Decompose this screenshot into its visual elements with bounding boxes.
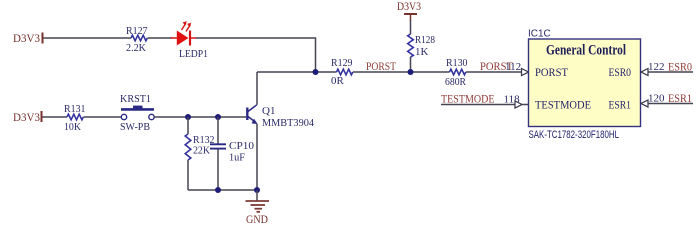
wire R127 to LED	[148, 37, 173, 39]
pin label TESTMODE	[535, 98, 591, 112]
svg-text:2.2K: 2.2K	[126, 42, 146, 54]
resistor R132	[185, 117, 214, 190]
svg-text:1uF: 1uF	[229, 152, 245, 164]
capacitor CP10	[210, 117, 254, 190]
svg-text:ESR1: ESR1	[668, 93, 692, 105]
wire LED to corner and down to node	[196, 38, 316, 70]
switch KRST1 SW-PB	[120, 93, 154, 133]
wire collector riser to R129	[257, 71, 337, 73]
node junction CP10 top	[215, 114, 221, 120]
net label PORST at pin	[480, 61, 513, 73]
svg-text:D3V3: D3V3	[13, 31, 40, 45]
pin label ESR1	[609, 98, 632, 112]
wire ESR1 stub	[648, 103, 693, 105]
wire D3V3 to R131	[43, 116, 68, 118]
resistor R129	[331, 57, 353, 87]
svg-text:R129: R129	[331, 57, 353, 69]
net label PORST	[366, 61, 396, 73]
pin number 118	[504, 94, 521, 106]
transistor Q1 MMBT3904	[247, 105, 314, 129]
svg-text:ESR1: ESR1	[609, 98, 632, 112]
svg-text:LEDP1: LEDP1	[179, 48, 208, 60]
svg-text:R130: R130	[446, 57, 468, 69]
wire TESTMODE stub	[441, 104, 515, 106]
node junction R128	[408, 69, 414, 75]
pin arrow ESR0	[641, 69, 648, 76]
pin label PORST	[535, 65, 569, 79]
net label ESR0	[668, 62, 692, 74]
svg-text:ESR0: ESR0	[609, 65, 632, 79]
resistor R130	[445, 57, 468, 88]
svg-text:D3V3: D3V3	[397, 0, 421, 13]
svg-text:1K: 1K	[415, 46, 429, 58]
wire ESR0 stub	[648, 71, 693, 73]
ground GND	[246, 190, 270, 226]
wire R129 to R130	[353, 71, 450, 73]
wire switch to Q1 base	[154, 116, 246, 118]
svg-text:Q1: Q1	[262, 105, 275, 117]
pin arrow TESTMODE	[515, 101, 529, 108]
wire collector up	[256, 72, 258, 105]
power port D3V3 top-left	[13, 31, 43, 45]
svg-text:ESR0: ESR0	[668, 62, 692, 74]
svg-text:PORST: PORST	[535, 65, 569, 79]
power port D3V3 bottom-left	[13, 110, 42, 124]
wire D3V3 to R127	[44, 37, 132, 39]
svg-text:General Control: General Control	[546, 43, 626, 59]
net label TESTMODE	[441, 94, 495, 106]
svg-text:PORST: PORST	[366, 61, 396, 73]
svg-text:R131: R131	[64, 103, 86, 115]
svg-text:680R: 680R	[445, 76, 467, 88]
svg-text:SW-PB: SW-PB	[120, 121, 150, 133]
wire emitter down	[256, 124, 258, 190]
pin number 112	[505, 61, 521, 73]
svg-text:R127: R127	[126, 25, 148, 37]
svg-text:22K: 22K	[193, 145, 210, 157]
svg-text:TESTMODE: TESTMODE	[441, 94, 495, 106]
svg-text:D3V3: D3V3	[13, 110, 40, 124]
resistor R131	[64, 103, 86, 133]
resistor R127	[126, 25, 148, 54]
node junction GND	[254, 187, 260, 193]
svg-text:SAK-TC1782-320F180HL: SAK-TC1782-320F180HL	[529, 129, 620, 141]
op IC1C General Control box	[528, 29, 641, 127]
wire R130 to IC pin PORST	[466, 71, 522, 73]
wire R128 to node	[410, 57, 412, 72]
wire D3V3 to R128	[410, 20, 412, 34]
svg-text:120: 120	[648, 93, 665, 105]
svg-text:10K: 10K	[64, 121, 81, 133]
resistor R128	[408, 34, 436, 58]
svg-text:GND: GND	[246, 214, 268, 225]
pin number 122	[648, 61, 665, 73]
svg-text:CP10: CP10	[229, 140, 254, 152]
pin arrow ESR1	[641, 100, 648, 107]
svg-text:0R: 0R	[331, 75, 345, 87]
LED LEDP1	[171, 21, 209, 60]
net label ESR1	[668, 93, 692, 105]
node junction CP10 bottom	[215, 187, 221, 193]
svg-text:KRST1: KRST1	[120, 93, 151, 105]
svg-text:MMBT3904: MMBT3904	[262, 117, 314, 129]
svg-text:R128: R128	[415, 34, 435, 46]
svg-text:122: 122	[648, 61, 665, 73]
part number SAK-TC1782-320F180HL	[529, 129, 620, 141]
wire bottom rail	[188, 189, 257, 191]
svg-text:IC1C: IC1C	[528, 29, 551, 40]
pin label ESR0	[609, 65, 632, 79]
power port D3V3 middle	[397, 0, 421, 21]
node junction at LED branch	[313, 69, 319, 75]
pin number 120	[648, 93, 665, 105]
svg-text:112: 112	[505, 61, 521, 73]
pin arrow PORST	[522, 69, 529, 76]
svg-text:TESTMODE: TESTMODE	[535, 98, 591, 112]
wire R131 to switch	[84, 116, 122, 118]
node junction R132 top	[185, 114, 191, 120]
